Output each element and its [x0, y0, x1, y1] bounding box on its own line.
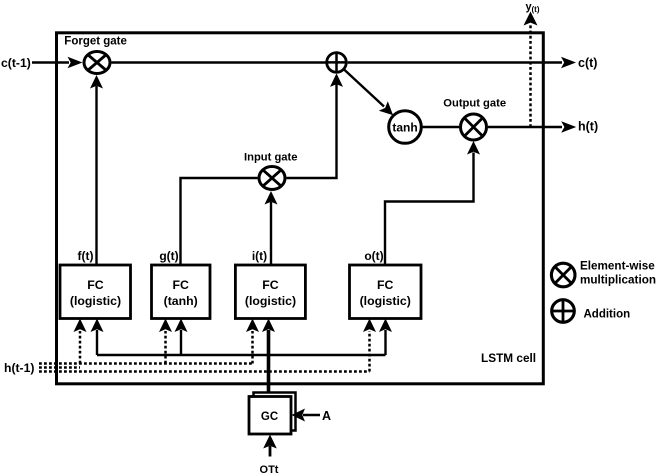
svg-text:(tanh): (tanh) — [164, 294, 198, 308]
svg-text:h(t): h(t) — [578, 120, 598, 134]
wire A input arrow — [303, 414, 320, 416]
addition circle — [327, 53, 347, 73]
svg-text:(logistic): (logistic) — [360, 294, 411, 308]
svg-text:FC: FC — [377, 278, 394, 292]
svg-text:multiplication: multiplication — [580, 274, 656, 287]
dotted branch to i box arrow — [251, 331, 254, 364]
wire solid branch to f box arrow — [96, 330, 98, 355]
wire h(t) output with arrow — [488, 126, 562, 128]
wire c(t-1) input with arrow — [32, 61, 69, 63]
FC box i(t) — [235, 265, 305, 319]
legend addition symbol — [552, 300, 575, 323]
GC box — [249, 397, 291, 435]
dotted branch to o box arrow — [368, 331, 371, 372]
wire f arrow into forget gate — [95, 86, 97, 265]
svg-text:h(t-1): h(t-1) — [4, 361, 34, 375]
svg-text:o(t): o(t) — [364, 249, 383, 263]
dotted h(t-1) row 2 stub — [39, 366, 80, 369]
wire solid branch to o box arrow — [384, 330, 386, 355]
LSTM cell boundary box — [57, 33, 544, 384]
svg-text:Element-wise: Element-wise — [580, 260, 655, 273]
svg-text:FC: FC — [262, 278, 279, 292]
svg-text:A: A — [322, 409, 331, 423]
svg-text:f(t): f(t) — [78, 249, 94, 263]
dotted branch to g box arrow — [164, 331, 167, 364]
svg-text:(t): (t) — [532, 5, 540, 14]
input gate multiplier circle — [259, 167, 285, 190]
svg-text:c(t): c(t) — [578, 56, 597, 70]
dotted branch to f box arrow — [79, 331, 82, 364]
svg-text:(logistic): (logistic) — [245, 294, 296, 308]
legend multiplication symbol — [551, 263, 575, 287]
wire o path into output gate arrow — [385, 153, 474, 266]
wire addition to tanh diagonal arrow — [344, 69, 384, 106]
wire solid branch to g box arrow — [180, 330, 182, 355]
wire solid trunk from GC to i box arrow — [267, 330, 271, 397]
dotted h(t-1) row 3 — [39, 370, 370, 373]
output gate multiplier circle — [461, 114, 487, 140]
svg-text:Addition: Addition — [584, 309, 631, 321]
tanh circle — [389, 111, 422, 144]
wire tanh to output gate — [421, 126, 459, 128]
FC box f(t) — [60, 265, 131, 319]
dotted h(t-1) row 1 — [39, 362, 253, 365]
solid x(t) distribution line — [97, 354, 386, 356]
wire OTt input arrow — [269, 446, 272, 457]
svg-text:(logistic): (logistic) — [70, 294, 121, 308]
svg-text:Forget gate: Forget gate — [64, 35, 127, 47]
svg-text:LSTM cell: LSTM cell — [481, 351, 536, 365]
svg-text:FC: FC — [87, 278, 104, 292]
svg-text:FC: FC — [172, 278, 189, 292]
FC box g(t) — [152, 265, 211, 319]
forget gate multiplier circle — [84, 52, 110, 74]
GC shadow box — [254, 393, 296, 431]
FC box o(t) — [350, 265, 422, 319]
wire c line middle — [112, 61, 326, 63]
svg-text:OTt: OTt — [260, 464, 279, 476]
svg-text:tanh: tanh — [392, 121, 417, 135]
svg-text:i(t): i(t) — [252, 249, 267, 263]
wire c(t) output with arrow — [348, 61, 562, 63]
wire g path into input gate — [181, 178, 258, 265]
svg-text:c(t-1): c(t-1) — [1, 56, 31, 70]
svg-text:g(t): g(t) — [159, 249, 178, 263]
wire y(t) dotted branch with arrow — [529, 24, 532, 127]
svg-text:Output gate: Output gate — [443, 98, 506, 110]
svg-text:GC: GC — [261, 411, 278, 423]
wire input gate to addition arrow — [287, 84, 337, 178]
wire i arrow into input gate — [270, 202, 272, 265]
svg-text:Input gate: Input gate — [244, 152, 297, 164]
